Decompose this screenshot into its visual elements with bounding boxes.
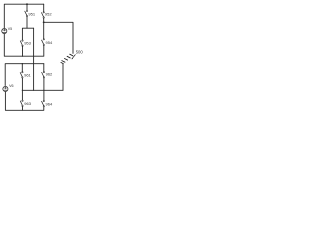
wire long vertical x=33.6 from y=28 rail to y=90 rail — [33, 28, 35, 90]
switch 963 — [20, 100, 31, 107]
node junction at (43.8,90.3) — [43, 90, 44, 91]
node junction at (22.4,56.2) — [22, 56, 23, 57]
wire loop2 right drop to switch 962 — [43, 64, 45, 72]
svg-text:962: 962 — [46, 72, 53, 77]
voltage source V5 — [2, 27, 12, 33]
switch 954 — [42, 39, 53, 46]
node junction top at x=27 — [26, 3, 28, 5]
svg-text:964: 964 — [46, 102, 53, 107]
wire loop2 top-left L (V6 top up and across) — [5, 64, 44, 86]
svg-text:961: 961 — [24, 73, 31, 78]
wire switch 964 bottom, bottom rail of loop2, up to V6 bottom — [5, 92, 43, 110]
wire switch 951 bottom down to y=28 rail — [26, 17, 28, 28]
resistor (rheostat) 500 zigzag — [70, 54, 73, 56]
switch 961 — [20, 72, 31, 79]
wire switch 953 bottom to bottom rail — [22, 47, 24, 57]
rheostat wiper arrow — [72, 55, 75, 59]
wire switch 952 bottom down to switch 954 top — [43, 18, 45, 38]
wire switch 954 bottom, bottom rail of loop1, up to V5 bottom — [4, 34, 44, 56]
svg-text:963: 963 — [24, 101, 31, 106]
switch 953 — [20, 40, 31, 47]
wire ground branch: from node right then down to rheostat — [44, 22, 73, 53]
voltage source V6 — [3, 84, 14, 91]
svg-text:500: 500 — [76, 50, 84, 55]
wire switch 961 bottom down through junction to switch 963 top — [21, 78, 23, 100]
wire y=90 rail — [22, 89, 63, 91]
svg-text:V6: V6 — [9, 84, 13, 88]
node junction at (22.3,90.3) — [22, 90, 23, 91]
node junction at (43.7,22.3) — [43, 21, 45, 23]
wire top-left L (V5 top up and across top) — [4, 4, 43, 28]
wire rheostat bottom down to y=90 rail — [62, 63, 64, 90]
svg-text:954: 954 — [46, 40, 53, 45]
wire stub from top wire down to switch 951 — [26, 4, 28, 10]
switch 951 — [25, 10, 36, 17]
svg-text:V5: V5 — [8, 27, 12, 31]
svg-text:953: 953 — [24, 41, 31, 46]
node junction at (22.3,63.7) — [22, 63, 23, 64]
wire switch 963 bottom stub to bottom rail — [22, 107, 24, 111]
wire right top stub to switch 952 — [43, 4, 45, 11]
wire switch 962 bottom down through junction to switch 964 top — [43, 78, 45, 100]
svg-text:951: 951 — [28, 12, 35, 17]
wire y=28 rail with left drop to switch 953 — [22, 28, 33, 40]
switch 964 — [42, 100, 53, 107]
node junction at (33.6,90.3) — [33, 90, 34, 91]
switch 952 — [42, 12, 53, 19]
svg-text:952: 952 — [45, 12, 52, 17]
switch 962 — [42, 71, 53, 78]
wire stub down to switch 961 — [21, 64, 23, 72]
